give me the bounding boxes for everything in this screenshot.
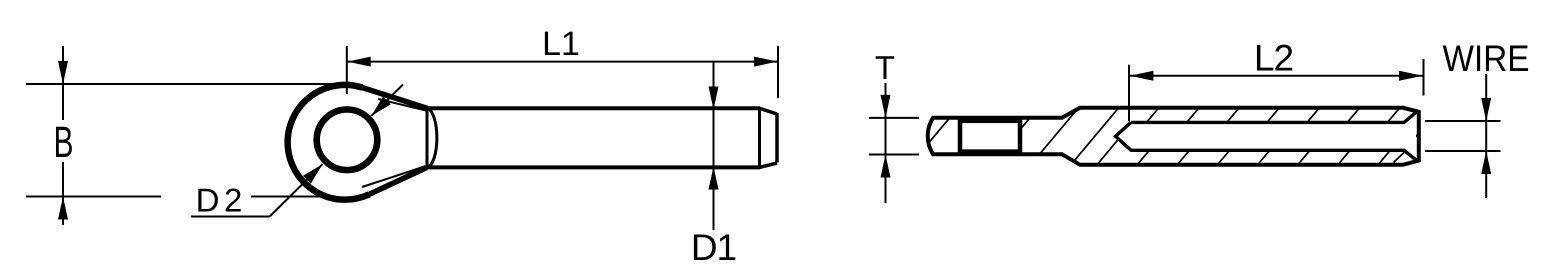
eye inner flat edge line top (thin) (378, 99, 426, 111)
arrowhead L2 left (points left) (1130, 71, 1153, 81)
label B (56, 127, 72, 157)
arrowhead B top (points down) (58, 61, 68, 84)
wire: B dimension top extension line (26, 83, 340, 85)
arrowhead D1 top (points down) (709, 87, 719, 110)
wire: L1 left extension line (346, 46, 348, 94)
eye inner flat edge line bottom (thin) (362, 166, 426, 187)
wire: T upper extension line (869, 117, 919, 119)
shank chamfer start vertical line (758, 108, 761, 167)
label L1 (545, 32, 578, 55)
arrowhead T top (points down) (881, 95, 891, 118)
label D2 (198, 188, 240, 211)
leader D2 diagonal (270, 164, 323, 216)
swage transition bulge arc (427, 108, 437, 167)
leader D2 underline (191, 216, 270, 218)
eye outer profile arc (288, 85, 370, 200)
shank bottom edge (427, 165, 760, 169)
dimension B vertical line upper part (62, 46, 64, 120)
eye hole circle D2 (317, 110, 378, 171)
wire: WIRE lower extension line (1425, 150, 1501, 152)
shank end chamfer bottom (760, 163, 778, 167)
label T (876, 56, 895, 79)
section outline (928, 108, 1419, 165)
label D1 (694, 235, 735, 260)
wire: L2 left extension line (1128, 65, 1130, 122)
wire: L1 right extension line (777, 46, 779, 98)
wire: B dimension bottom extension line (left of D2 text) (26, 196, 161, 198)
dimension B vertical line lower part (62, 162, 64, 225)
dimension WIRE vertical line (1485, 74, 1487, 198)
dimension L2 line (1130, 75, 1423, 77)
hatch tick in lower end chamfer triangle (1394, 153, 1405, 163)
arrowhead L1 left (points left) (347, 57, 370, 67)
shank top edge (427, 106, 760, 110)
shank end chamfer top (760, 108, 778, 114)
dimension T vertical line (885, 83, 887, 203)
section hatching (902, 98, 1488, 175)
wire: WIRE upper extension line (1425, 120, 1501, 122)
section hatching (lower sleeve wall) (888, 98, 1474, 175)
wire: B dimension bottom extension line (right of D2 text) (251, 196, 325, 198)
arrowhead D2 upper (points down-left at hole edge) (371, 97, 391, 116)
arrowhead D2 lower (points up-right at hole edge) (303, 164, 323, 183)
dimension D1 vertical line (713, 62, 715, 230)
arrowhead WIRE bottom (points up) (1481, 151, 1491, 174)
wire: L2 right extension line (1423, 59, 1425, 96)
arrowhead WIRE top (points down) (1481, 98, 1491, 121)
arrowhead L1 right (points right) (754, 57, 777, 67)
leader D2 far side tail (371, 85, 403, 116)
eye hole section rectangle (960, 121, 1020, 152)
shank end face (775, 113, 779, 163)
eye outer tangent line bottom (369, 167, 427, 194)
arrowhead T bottom (points up) (881, 155, 891, 178)
arrowhead L2 right (points right) (1399, 71, 1422, 81)
label WIRE (1443, 46, 1528, 71)
wire: T lower extension line (869, 154, 919, 156)
eye outer tangent line top (363, 88, 428, 109)
bore outline (1116, 111, 1418, 161)
arrowhead B bottom (points up) (58, 197, 68, 220)
label L2 (1257, 45, 1292, 71)
dimension L1 line (347, 61, 777, 63)
arrowhead D1 bottom (points up) (709, 167, 719, 190)
swage transition vertical line (426, 108, 429, 167)
